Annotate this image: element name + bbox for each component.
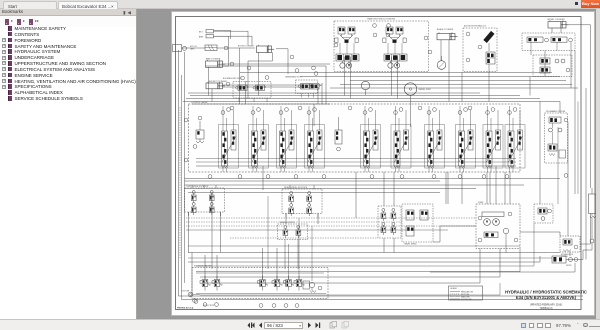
callout 2 xyxy=(230,62,234,66)
wire joystick drop R2 xyxy=(317,214,319,225)
wire right vertical x575 xyxy=(574,51,576,195)
wire pump outlet riser 2 xyxy=(495,166,497,204)
wire filter return xyxy=(566,250,583,260)
solenoid manifold dashed box xyxy=(192,265,328,299)
wire mid vertical 2 xyxy=(447,172,449,204)
wire bus h3 xyxy=(183,102,560,108)
wire left return bus xyxy=(179,50,584,296)
pin dot xyxy=(575,2,578,5)
control valve dashed enclosure xyxy=(189,101,521,172)
manifold relief valve xyxy=(303,281,322,293)
wire right drop r1 xyxy=(445,172,447,204)
hydraulic oil cooler xyxy=(560,236,580,258)
wire right drop r5 xyxy=(539,102,541,205)
svg-text:BOOM CYLINDER: BOOM CYLINDER xyxy=(238,45,254,47)
right scrollbar strip xyxy=(596,9,600,319)
solenoid valve 6 xyxy=(294,276,304,291)
wire travel pilot feed 2 xyxy=(393,172,395,206)
callout 1 xyxy=(224,46,228,50)
wire arm line right xyxy=(228,36,252,45)
wire sol feed lines 4 xyxy=(298,218,300,280)
title text line 3 xyxy=(530,304,562,307)
left work joystick pilot valve xyxy=(223,78,271,102)
wire sol feed lines 3 xyxy=(288,244,290,280)
wire joystick drop L2 xyxy=(220,212,222,253)
wire blade control drops xyxy=(284,244,286,269)
travel motor callouts xyxy=(334,24,432,54)
wire sol riser 2 xyxy=(262,166,264,190)
wire pump suction xyxy=(505,240,507,253)
wire right vertical x586 xyxy=(585,88,587,260)
svg-text:ARM: ARM xyxy=(199,36,204,39)
svg-text:FILTER: FILTER xyxy=(566,265,572,267)
wire bottom run y289 xyxy=(196,293,326,295)
wire boom rod side line xyxy=(276,49,288,74)
left travel motor xyxy=(335,27,359,68)
pump dashed box xyxy=(476,202,520,249)
svg-text:BOOM/BUCKET PILOT: BOOM/BUCKET PILOT xyxy=(223,78,243,80)
wire valve bank bottom bus xyxy=(196,165,516,167)
title text line 1 xyxy=(505,289,587,294)
legend box xyxy=(449,286,483,301)
svg-text:PRINTED IN U.S.A.: PRINTED IN U.S.A. xyxy=(177,306,194,309)
misc callouts left xyxy=(184,106,472,162)
blade cylinder xyxy=(437,28,458,40)
wire bucket cyl left drop xyxy=(211,89,213,102)
wire joystick top links L xyxy=(191,185,193,188)
control valve aux section xyxy=(483,106,503,172)
wire bottom long bus 3 xyxy=(188,252,560,254)
pin grabber coupler box xyxy=(545,110,568,177)
wire pump to cooler xyxy=(520,232,560,236)
wire bus h6 xyxy=(350,80,566,82)
wire aux drop xyxy=(488,64,490,102)
wire boom cyl lines down xyxy=(258,52,260,95)
wire below bank bus 2 xyxy=(185,188,477,190)
control valve left travel section xyxy=(361,106,381,172)
wire pin grabber drop xyxy=(559,107,561,113)
wire mid vertical 3 xyxy=(504,172,506,204)
wire filter to boom cyl xyxy=(217,47,255,49)
wire right margin loop low xyxy=(583,243,592,250)
wire bkt line right xyxy=(224,31,248,45)
callout 3 xyxy=(226,82,230,86)
orange buy button xyxy=(581,0,600,8)
svg-text:PIN GRABBER COUPLER: PIN GRABBER COUPLER xyxy=(546,110,566,113)
title text line 2 xyxy=(516,295,577,300)
wire arm cyl line 2 xyxy=(223,66,327,104)
main pump circles xyxy=(482,212,504,225)
svg-text:COUPLER: COUPLER xyxy=(181,290,190,292)
wire bottom long bus 5 xyxy=(196,249,520,272)
svg-text:TRAVEL MOTORS (2) LH SHOWN: TRAVEL MOTORS (2) LH SHOWN xyxy=(367,17,396,20)
svg-text:AUX BOOM HYDRAULICS: AUX BOOM HYDRAULICS xyxy=(464,25,487,28)
wire left frame vertical 3 xyxy=(184,52,186,283)
wire right vertical x568 xyxy=(567,122,569,236)
wire right margin loop xyxy=(590,130,592,188)
wire bucket cyl line right xyxy=(223,84,323,86)
document area gray background xyxy=(138,9,600,319)
travel pilot valves xyxy=(378,206,401,238)
wire long pilot dashed xyxy=(186,217,476,219)
bookmarks panel xyxy=(0,9,137,319)
wire valve to pump line xyxy=(433,226,476,242)
solenoid valve 5 xyxy=(284,276,294,291)
wire bottom run y289b xyxy=(200,283,500,295)
wire mid vertical 1 xyxy=(355,172,357,218)
control valve right travel section xyxy=(391,106,411,172)
wire sol feed lines 5 xyxy=(311,226,313,281)
svg-text:HYDRAULIC OIL: HYDRAULIC OIL xyxy=(561,253,573,256)
svg-text:SWIVEL JOINT: SWIVEL JOINT xyxy=(419,89,432,91)
control valve swing section xyxy=(305,106,325,172)
wire joystick drop L1 xyxy=(188,212,190,253)
wire upper dashed enclosure xyxy=(179,107,181,258)
svg-text:ARM/SWING PILOT: ARM/SWING PILOT xyxy=(286,76,303,79)
wire sol drops 4 xyxy=(276,248,278,280)
port relief circle xyxy=(361,81,369,95)
wire upper right drop 2 xyxy=(529,77,531,96)
right drive joystick box xyxy=(282,187,322,218)
svg-text:TRAVEL SPEED: TRAVEL SPEED xyxy=(404,243,417,246)
printed in usa text xyxy=(177,306,194,309)
svg-text:BLADE CYLINDER: BLADE CYLINDER xyxy=(437,28,454,31)
wire sol feed lines 2 xyxy=(267,196,269,269)
wire bottom long bus 1 xyxy=(185,184,525,186)
wire bucket cyl line 2 xyxy=(223,87,319,104)
quick coupler ARM port xyxy=(199,35,228,39)
svg-text:OFFSET CYLINDER: OFFSET CYLINDER xyxy=(547,19,565,21)
solenoid valve 3 xyxy=(258,276,268,291)
svg-text:ARM CYLINDER: ARM CYLINDER xyxy=(206,58,221,61)
wire joystick drop R1 xyxy=(285,214,287,225)
wire mid bus 2 xyxy=(186,229,448,231)
document tab xyxy=(58,1,118,9)
solenoid valve 4 xyxy=(272,276,282,291)
accumulator xyxy=(483,31,494,51)
wire swing drop xyxy=(313,104,315,126)
wire bus h5 xyxy=(340,84,572,86)
wire pump outlet riser xyxy=(486,172,488,204)
wire offset cyl drop2 xyxy=(560,28,562,33)
wire blade cyl drop xyxy=(440,40,442,61)
wire bus h1 xyxy=(190,95,520,97)
top tab bar xyxy=(0,0,600,9)
wire offset loop right xyxy=(566,25,591,130)
two speed valve cluster xyxy=(402,204,433,246)
aux callouts xyxy=(466,32,482,62)
Start tab xyxy=(3,1,57,9)
svg-text:PRESSURE LINE: PRESSURE LINE xyxy=(461,291,473,293)
wire blade control drops 2 xyxy=(297,244,299,269)
wire bkt vertical pair a xyxy=(239,48,241,104)
wire joystick top links R xyxy=(289,185,291,189)
offset cylinder xyxy=(547,19,569,28)
wire tank to filter xyxy=(182,47,206,49)
wire bus h7 xyxy=(300,76,560,78)
wire long pilot dashed 2 xyxy=(186,221,402,223)
travel motors dashed box xyxy=(334,21,429,72)
wire bus h0 xyxy=(188,92,480,94)
callout 5 xyxy=(290,55,294,59)
svg-text:PUMP: PUMP xyxy=(478,202,484,204)
coupler port xyxy=(181,290,200,303)
svg-text:LEGEND: LEGEND xyxy=(450,288,458,290)
white schematic page xyxy=(171,11,596,316)
wire right drop r3 xyxy=(489,172,491,204)
control valve boom section xyxy=(219,106,239,172)
wire cooler line right xyxy=(580,214,591,245)
svg-text:HYDRAULIC / HYDROSTATIC SCHEMA: HYDRAULIC / HYDROSTATIC SCHEMATIC xyxy=(505,289,587,294)
pilot pressure valve box xyxy=(534,204,553,223)
boom cylinder xyxy=(238,45,274,53)
left drive joystick box xyxy=(185,186,225,216)
wire arm cyl lines right xyxy=(223,63,331,65)
wire mid bus 5 xyxy=(188,257,552,259)
wire sol drops 1 xyxy=(204,255,206,280)
solenoid valve 1 xyxy=(200,276,210,291)
travel motors label xyxy=(367,17,396,20)
inlet relief valve xyxy=(193,116,204,148)
arm cylinder xyxy=(206,58,226,68)
svg-text:BUCKET CYLINDER: BUCKET CYLINDER xyxy=(209,81,227,83)
max flow control cluster xyxy=(522,33,575,51)
wire bottom long bus 2 xyxy=(185,180,441,182)
wire below bank bus 3 xyxy=(188,192,440,194)
wire mid bus 6 xyxy=(196,223,534,266)
wire upper right drop 4 xyxy=(570,42,572,88)
control valve bucket section xyxy=(277,106,297,172)
aux boom hydraulics dashed box xyxy=(463,25,497,72)
wire bus h2 xyxy=(186,98,540,100)
svg-text:SUCTION LINE: SUCTION LINE xyxy=(461,299,472,301)
wire bottom long bus 7 xyxy=(204,249,480,284)
wire right drop r4 xyxy=(509,172,511,204)
boom offset selector box xyxy=(533,55,572,77)
schematic border frame xyxy=(176,17,582,310)
aux control valve xyxy=(486,52,495,64)
wire joystick top links L2 xyxy=(215,185,217,188)
wire max flow drop xyxy=(530,51,532,56)
valve bank internal gallery 1 xyxy=(196,158,516,160)
wire boom cyl rod line xyxy=(248,52,273,98)
svg-text:BKT: BKT xyxy=(199,32,204,34)
control valve blade section xyxy=(425,106,445,172)
wire mid bus 4 xyxy=(188,245,520,247)
wire upper right drop 3 xyxy=(544,51,546,77)
wire travel pilot drops 2 xyxy=(393,238,395,253)
wire travel motor drop 2 xyxy=(350,57,352,99)
control valve offset section xyxy=(456,106,476,172)
callout 4 xyxy=(247,66,251,70)
wire sol drops 2 xyxy=(216,255,218,280)
wire mid bus 1 xyxy=(186,225,476,227)
callout row bottom xyxy=(193,299,299,308)
wire bottom long bus 4 xyxy=(188,256,540,262)
sheet number text xyxy=(203,305,214,307)
wire sol riser 1 xyxy=(203,185,205,188)
wire swing drop 2 xyxy=(321,83,323,104)
callout 6 xyxy=(241,66,318,80)
gear pump xyxy=(503,228,509,240)
swivel joint xyxy=(404,83,432,95)
svg-text:COOLER: COOLER xyxy=(561,256,569,258)
valve bank internal gallery 2 xyxy=(196,161,516,163)
wire travel pilot drops xyxy=(383,238,385,253)
wire right drop r2 xyxy=(461,172,463,204)
wire travel motor drop 1 xyxy=(344,57,346,96)
wire bkt vertical pair b xyxy=(245,81,247,104)
svg-text:BLADE CONTROL: BLADE CONTROL xyxy=(280,221,295,224)
solenoid valve 2 xyxy=(212,276,222,291)
title text line 4 xyxy=(540,307,553,310)
center bypass element xyxy=(335,117,342,151)
wire mid bus 3 xyxy=(230,237,378,239)
wire arm cyl left drop xyxy=(208,67,210,95)
quick coupler BKT port xyxy=(199,30,224,34)
callout row below bank xyxy=(208,175,509,179)
wire top multirun 2 xyxy=(206,36,229,66)
svg-text:LEFT DRIVE JOYSTICK: LEFT DRIVE JOYSTICK xyxy=(187,186,210,188)
return manifold element xyxy=(589,188,597,243)
wire left pilot bus xyxy=(182,75,584,300)
pressure gauge xyxy=(437,56,446,69)
right travel motor xyxy=(383,27,407,68)
right work joystick pilot valve xyxy=(286,76,321,98)
bucket cylinder xyxy=(206,81,227,89)
wire right vertical x578 xyxy=(577,102,579,195)
status bar xyxy=(0,319,600,330)
wire offset cyl drop xyxy=(551,28,553,33)
wire joystick top links R2 xyxy=(313,185,315,189)
wire bus h2b xyxy=(192,103,330,105)
control valve arm section xyxy=(249,106,269,172)
wire upper right drop 1 xyxy=(461,73,463,102)
filter bypass cluster xyxy=(552,256,578,267)
wire bus h8 xyxy=(240,72,552,74)
wire travel motor drop 4 xyxy=(397,57,399,99)
inline filter xyxy=(205,45,217,51)
wire bus h4 xyxy=(330,87,578,89)
wire left low vertical xyxy=(191,253,193,295)
pump regulator xyxy=(478,212,518,242)
wire travel pilot feed xyxy=(383,172,385,206)
blade control box xyxy=(278,221,308,244)
wire below bank bus 1 xyxy=(185,178,561,180)
hydraulic tank port xyxy=(173,45,197,52)
wire swivel joint drop xyxy=(410,95,412,127)
wire sol feed lines xyxy=(211,193,213,270)
wire return line y272 xyxy=(430,263,575,272)
control valve pin grabber section xyxy=(505,106,525,172)
wire travel motor drop 3 xyxy=(391,57,393,96)
wire top multirun 1 xyxy=(214,30,231,39)
wire bottom long bus 6 xyxy=(200,249,500,278)
wire right drop r6 xyxy=(557,127,559,204)
wire blade cyl drop 2 xyxy=(448,40,450,102)
wire cooler to filter xyxy=(569,252,571,256)
svg-text:7295531 (2): 7295531 (2) xyxy=(540,307,553,310)
wire sol drops 3 xyxy=(262,248,264,280)
